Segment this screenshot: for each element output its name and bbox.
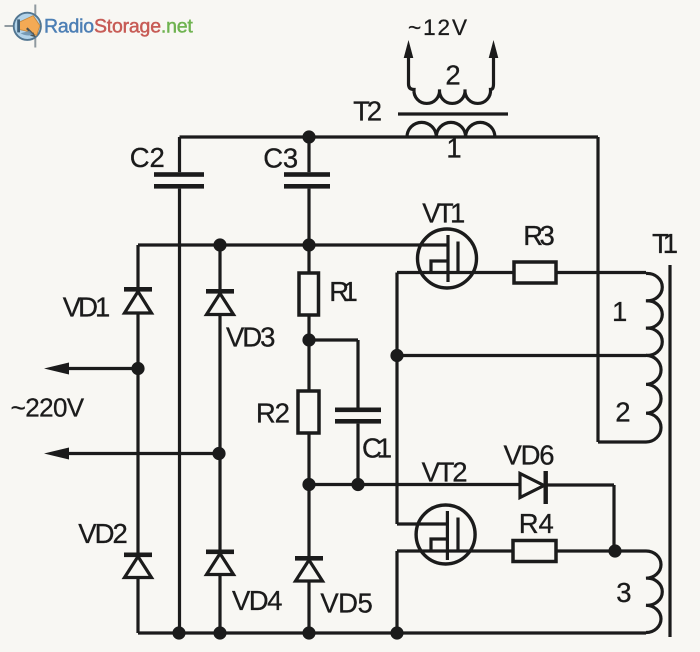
svg-text:C1: C1 (362, 433, 392, 464)
svg-text:~220V: ~220V (11, 393, 85, 423)
svg-text:1: 1 (446, 133, 461, 164)
svg-text:T2: T2 (353, 96, 382, 127)
svg-text:R4: R4 (519, 508, 554, 539)
svg-text:VT2: VT2 (422, 457, 468, 488)
svg-text:2: 2 (445, 60, 460, 91)
svg-text:~12V: ~12V (408, 15, 467, 40)
svg-text:R3: R3 (523, 220, 555, 251)
svg-text:VD2: VD2 (78, 518, 128, 549)
svg-text:T1: T1 (652, 228, 678, 259)
svg-text:VD5: VD5 (320, 588, 373, 619)
svg-text:C2: C2 (130, 142, 165, 173)
svg-text:RadioStorage.net: RadioStorage.net (44, 16, 193, 38)
svg-text:VD4: VD4 (232, 585, 283, 616)
svg-text:R1: R1 (329, 276, 358, 307)
svg-text:2: 2 (615, 397, 630, 428)
svg-text:VT1: VT1 (422, 198, 465, 229)
svg-text:1: 1 (612, 296, 627, 327)
svg-text:VD1: VD1 (63, 292, 111, 323)
svg-text:VD6: VD6 (504, 440, 555, 471)
svg-text:3: 3 (616, 577, 631, 608)
svg-text:C3: C3 (263, 143, 298, 174)
svg-text:R2: R2 (256, 398, 290, 429)
svg-text:VD3: VD3 (226, 321, 276, 352)
